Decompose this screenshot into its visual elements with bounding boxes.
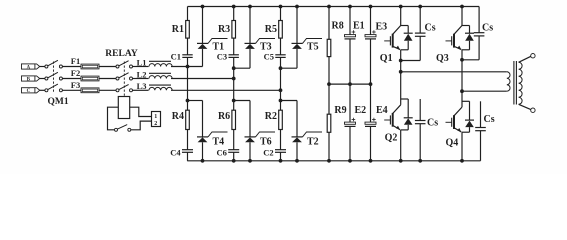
wire fuse to relay contact (99, 89, 116, 91)
IGBT Q4 (446, 91, 463, 148)
svg-text:E2: E2 (355, 105, 367, 116)
wire L2 row to rectifier (crosses cell1 leg) (171, 78, 234, 80)
fuse F2 (71, 68, 99, 81)
wire half-bridge2 midpoint to transformer primary bottom (462, 90, 507, 92)
svg-text:R2: R2 (265, 111, 277, 122)
svg-text:Cs: Cs (484, 114, 495, 125)
svg-text:Q2: Q2 (385, 132, 398, 143)
svg-text:2: 2 (154, 121, 157, 127)
svg-text:Cs: Cs (482, 23, 493, 34)
wire relay contact to inductor L1 (133, 66, 149, 68)
wire Q3 emitter leg (461, 50, 463, 91)
resistor R2 (265, 101, 283, 130)
input terminal C (phase 3) (22, 88, 40, 94)
wire QM1 pole to fuse (62, 78, 81, 80)
wire relay coil left terminal (108, 107, 119, 130)
svg-text:C5: C5 (264, 52, 274, 62)
svg-text:T2: T2 (307, 137, 319, 148)
node T4 bottom bus junction (201, 159, 204, 162)
svg-text:R8: R8 (332, 21, 344, 32)
node jog junction (186, 99, 189, 102)
wire Q2 emitter leg (400, 130, 402, 161)
relay contact 2 (116, 73, 133, 80)
node R3 top bus junction (232, 5, 235, 8)
wire secondary top lead (519, 56, 531, 62)
wire L3 row to rectifier (crosses cell1,2 legs) (171, 89, 281, 91)
wire R9 to bottom bus (328, 132, 330, 161)
wire jog to T2 leg (281, 100, 298, 102)
node Q2 emitter bottom bus junction (399, 159, 402, 162)
anti-parallel diode of Q3 (462, 26, 474, 50)
svg-text:A: A (27, 65, 31, 70)
top DC bus (+) (188, 6, 480, 8)
node Q2 Cs bottom bus junction (419, 159, 422, 162)
node E4 bottom bus junction (369, 159, 372, 162)
fuse F3 (71, 80, 99, 93)
node phase L3 junction (279, 89, 282, 92)
electrolytic capacitor E3 (365, 7, 387, 85)
svg-text:Q1: Q1 (380, 53, 393, 64)
thyristor T5 (292, 7, 323, 69)
anti-parallel diode of Q1 (401, 26, 413, 50)
resistor R3 (218, 7, 236, 39)
svg-text:E1: E1 (353, 21, 365, 32)
switch in relay coil circuit (115, 125, 131, 132)
switch QM1 pole 1 (45, 60, 63, 68)
output terminal bottom (531, 108, 535, 112)
node Q1 collector top bus junction (399, 5, 402, 8)
node R8 top bus junction (328, 5, 331, 8)
node phase L2 junction (232, 77, 235, 80)
transformer core (513, 61, 515, 105)
svg-text:F2: F2 (71, 68, 80, 78)
svg-text:C4: C4 (170, 148, 181, 158)
svg-text:C3: C3 (217, 52, 227, 62)
node R5 top bus junction (279, 5, 282, 8)
snubber capacitor Cs of Q3 (462, 7, 493, 60)
input terminal A (phase 1) (22, 64, 40, 70)
svg-text:R6: R6 (218, 111, 230, 122)
fuse F1 (71, 56, 99, 69)
svg-text:R3: R3 (218, 24, 230, 35)
capacitor C2 (snubber) (263, 130, 286, 161)
node T6 bottom bus junction (249, 159, 252, 162)
svg-text:E3: E3 (376, 22, 388, 33)
wire fuse to relay contact (99, 78, 116, 80)
svg-text:L2: L2 (137, 69, 147, 79)
electrolytic capacitor E1 (345, 7, 365, 85)
node E2 bottom bus junction (349, 159, 352, 162)
wire secondary bottom lead (519, 104, 531, 109)
svg-text:R5: R5 (265, 24, 277, 35)
svg-text:B: B (27, 77, 31, 82)
transformer primary winding (507, 72, 510, 91)
wire terminal to QM1 pole (40, 78, 45, 80)
wire T5 cathode jog to R-leg (281, 67, 298, 69)
wire terminal to QM1 pole (40, 89, 45, 91)
node C6 bottom bus junction (232, 159, 235, 162)
svg-text:Cs: Cs (427, 118, 438, 129)
svg-text:R9: R9 (334, 105, 346, 116)
svg-text:T4: T4 (213, 137, 225, 148)
IGBT Q2 (384, 72, 401, 144)
resistor R4 (172, 101, 190, 130)
anti-parallel diode of Q2 (401, 99, 413, 130)
thyristor T6 (245, 101, 276, 161)
wire Q4 emitter leg (461, 132, 463, 161)
node Q3 collector top bus junction (461, 5, 464, 8)
node Q1 emitter / Cs junction (399, 59, 402, 62)
wire relay contact to inductor L2 (133, 78, 149, 80)
resistor R1 (172, 7, 190, 39)
wire Q1 emitter leg (400, 50, 402, 72)
resistor R9 (bus balancing) (327, 84, 346, 132)
wire R-leg down to lower cell (crosses rows) (233, 79, 235, 101)
svg-text:Q4: Q4 (446, 137, 459, 148)
IGBT Q1 (380, 7, 401, 64)
svg-text:C1: C1 (171, 52, 181, 62)
svg-text:C: C (27, 89, 31, 94)
svg-text:QM1: QM1 (48, 97, 69, 107)
wire QM1 pole to fuse (62, 89, 81, 91)
svg-text:RELAY: RELAY (105, 49, 138, 59)
node E1 top bus junction (349, 5, 352, 8)
svg-text:T6: T6 (260, 137, 272, 148)
node C2 bottom bus junction (279, 159, 282, 162)
connector block terminals 1 2 (152, 112, 161, 128)
snubber capacitor Cs of Q4 (475, 101, 495, 161)
resistor R8 (bus balancing) (327, 7, 344, 57)
node E3 mid bus junction (369, 83, 372, 86)
node T3 top bus junction (249, 5, 252, 8)
svg-text:Q3: Q3 (436, 53, 449, 64)
node T2 bottom bus junction (296, 159, 299, 162)
wire relay coil right terminal to connector terminal 1 (130, 107, 152, 116)
svg-text:L3: L3 (137, 81, 147, 91)
wire cell2 join to phase row (233, 68, 235, 78)
node half-bridge 1 midpoint (399, 70, 402, 73)
node half-bridge 2 midpoint (461, 90, 464, 93)
relay contact 3 (116, 85, 133, 92)
node phase L1 junction (186, 65, 189, 68)
thyristor T4 (197, 101, 228, 161)
wire relay contact to inductor L3 (133, 89, 149, 91)
transformer secondary winding (519, 62, 523, 104)
node R9 bottom bus junction (328, 159, 331, 162)
svg-text:L1: L1 (137, 57, 147, 67)
wire half-bridge1 midpoint to transformer primary top (401, 71, 507, 73)
wire cell3 join to phase row (280, 68, 282, 90)
resistor R5 (265, 7, 283, 39)
capacitor C1 (snubber) (171, 38, 193, 66)
wire R8 to mid bus (328, 57, 330, 85)
input terminal B (phase 2) (22, 76, 40, 82)
svg-text:C6: C6 (217, 148, 227, 158)
bottom DC bus (-) (187, 160, 480, 162)
capacitor C4 (snubber) (170, 130, 193, 161)
wire fuse to relay contact (99, 66, 116, 68)
node T1 top bus junction (201, 5, 204, 8)
node mid bus left junction (328, 83, 331, 86)
relay coil K (rectangle) (118, 97, 129, 119)
resistor R6 (218, 101, 236, 130)
wire T3 cathode jog to R-leg (234, 67, 250, 69)
svg-text:R1: R1 (172, 24, 184, 35)
svg-text:1: 1 (154, 114, 157, 120)
wire QM1 pole to fuse (62, 66, 81, 68)
wire terminal to QM1 pole (40, 66, 45, 68)
inductor L2 (137, 69, 173, 79)
snubber capacitor Cs of Q1 (401, 7, 436, 61)
switch QM1 pole 3 (45, 84, 63, 92)
capacitor C3 (snubber) (217, 38, 239, 68)
node Q1 Cs top bus junction (419, 5, 422, 8)
svg-text:F1: F1 (71, 56, 80, 66)
node T5 top bus junction (296, 5, 299, 8)
wire jog to T6 leg (234, 100, 250, 102)
relay mechanical linkage (dashed) (123, 62, 125, 97)
anti-parallel diode of Q4 (462, 101, 474, 132)
IGBT Q3 (436, 7, 462, 65)
svg-text:F3: F3 (71, 80, 80, 90)
wire jog to T4 leg (188, 100, 203, 102)
wire R-leg down to lower cell (crosses rows) (187, 67, 189, 101)
inductor L1 (137, 57, 173, 67)
node Q3 emitter / Cs junction (461, 58, 464, 61)
node jog junction (232, 99, 235, 102)
thyristor T3 (245, 7, 276, 69)
node Q4 emitter bottom bus junction (461, 159, 464, 162)
thyristor T2 (292, 101, 323, 161)
QM1 mechanical linkage (dashed) (53, 62, 55, 93)
node E1 mid bus junction (349, 83, 352, 86)
electrolytic capacitor E4 (365, 84, 388, 161)
wire R-leg down to lower cell (crosses rows) (280, 90, 282, 100)
wire switch to connector terminal 2 (131, 121, 152, 130)
output terminal top (531, 54, 535, 58)
node E3 top bus junction (369, 5, 372, 8)
svg-text:E4: E4 (376, 105, 388, 116)
svg-text:Cs: Cs (425, 23, 436, 34)
thyristor T1 (197, 7, 228, 67)
electrolytic capacitor E2 (345, 84, 367, 161)
node jog junction (279, 99, 282, 102)
capacitor C6 (snubber) (217, 130, 240, 161)
capacitor C5 (snubber) (264, 38, 286, 68)
svg-text:C2: C2 (263, 148, 273, 158)
mid bus wire (329, 83, 371, 85)
relay contact 1 (116, 61, 133, 68)
switch QM1 pole 2 (45, 72, 63, 80)
svg-text:R4: R4 (172, 111, 184, 122)
snubber capacitor Cs of Q2 (415, 99, 438, 161)
svg-text:T5: T5 (307, 41, 319, 52)
wire L1 row to rectifier (171, 66, 203, 68)
inductor L3 (137, 81, 173, 91)
